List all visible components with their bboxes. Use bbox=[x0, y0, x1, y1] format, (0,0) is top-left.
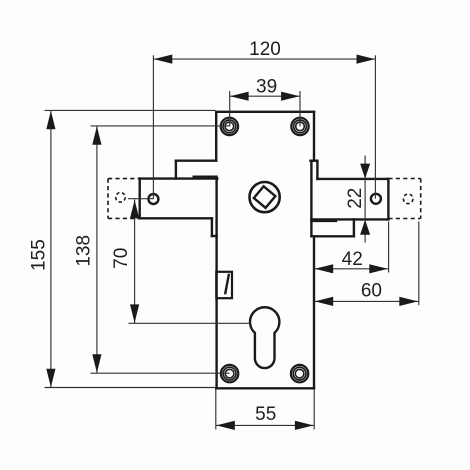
spindle follower circle bbox=[250, 182, 280, 212]
arrow 39 right bbox=[281, 92, 300, 101]
dim line 55 bbox=[216, 424, 314, 426]
arrow 60 left bbox=[315, 297, 334, 306]
dim line 39 bbox=[230, 95, 300, 97]
ext: 39 left bbox=[229, 91, 231, 126]
spindle square hole bbox=[254, 186, 276, 208]
dim line 138 bbox=[96, 126, 98, 373]
arrow 138 top bbox=[92, 126, 101, 145]
ext: 55 right bbox=[313, 390, 315, 430]
arrow 55 left bbox=[216, 421, 235, 430]
right lower tab bbox=[311, 219, 354, 236]
latch lever diagonal bbox=[225, 274, 229, 295]
arrow 42 right bbox=[369, 264, 388, 273]
body left edge upper bbox=[215, 112, 217, 161]
arrow 155 bottom bbox=[46, 369, 55, 388]
dim line 120 bbox=[153, 58, 375, 60]
screw bottom-right bbox=[291, 365, 308, 382]
svg-text:155: 155 bbox=[29, 239, 50, 271]
right weld plate bbox=[311, 179, 388, 220]
body left edge lower bbox=[215, 179, 217, 389]
arrow 138 bottom bbox=[92, 354, 101, 373]
svg-text:55: 55 bbox=[255, 404, 276, 425]
svg-text:42: 42 bbox=[342, 249, 363, 270]
euro cylinder keyhole bbox=[250, 307, 279, 368]
svg-text:120: 120 bbox=[249, 39, 281, 60]
svg-text:39: 39 bbox=[256, 76, 277, 97]
left lower step bbox=[212, 218, 217, 236]
body top edge bbox=[216, 111, 314, 113]
ext: 70 top (to left plate hole) bbox=[128, 198, 153, 200]
dim line 60 bbox=[314, 300, 418, 302]
screw top-left bbox=[221, 118, 238, 135]
arrow 42 left bbox=[315, 264, 334, 273]
lock body outline bbox=[216, 112, 314, 389]
svg-text:138: 138 bbox=[73, 235, 94, 267]
left plate hole bbox=[148, 194, 158, 204]
ext: 120 left (to left plate hole) bbox=[152, 55, 154, 199]
left dashed hole bbox=[116, 193, 126, 203]
ext: 155 bottom bbox=[45, 387, 216, 389]
right dashed hole bbox=[403, 194, 413, 204]
ext: 55 left bbox=[215, 390, 217, 430]
body right edge upper bbox=[313, 112, 315, 161]
right dashed gate post bbox=[388, 179, 420, 219]
screw top-right bbox=[291, 118, 308, 135]
body right edge lower bbox=[313, 236, 315, 388]
svg-text:22: 22 bbox=[345, 188, 366, 209]
svg-text:60: 60 bbox=[361, 281, 382, 302]
arrow 70 bottom bbox=[130, 304, 139, 323]
left mounting tab bbox=[176, 161, 217, 179]
thin extension lines bbox=[45, 55, 419, 429]
ext: 155 top bbox=[45, 109, 216, 111]
right edge bump bbox=[310, 161, 317, 179]
arrow 60 right bbox=[399, 297, 418, 306]
svg-text:70: 70 bbox=[111, 248, 132, 269]
dim line 70 bbox=[134, 200, 136, 324]
ext: 39 right bbox=[299, 91, 301, 126]
arrow 39 left bbox=[230, 92, 249, 101]
arrowheads bbox=[46, 55, 418, 431]
screw bottom-left bbox=[221, 365, 238, 382]
arrow 120 right bbox=[357, 55, 376, 64]
ext: 70 bottom (to keyhole) bbox=[129, 322, 251, 324]
dim line 22 bbox=[364, 156, 366, 243]
ext: 138 top bbox=[91, 125, 230, 127]
arrow 70 top bbox=[130, 200, 139, 219]
dim line 155 bbox=[50, 110, 52, 387]
arrow 55 right bbox=[295, 421, 314, 430]
arrow 155 top bbox=[46, 111, 55, 130]
ext: 120 right (to right plate hole) bbox=[374, 55, 376, 199]
body bottom edge bbox=[216, 387, 314, 389]
latch lever rectangle bbox=[216, 272, 232, 298]
dim line 42 bbox=[314, 268, 388, 270]
arrow 120 left bbox=[154, 55, 173, 64]
body right edge mid (behind right plate) bbox=[310, 161, 312, 237]
ext: 138 bottom bbox=[91, 372, 230, 374]
ext: 42 right bbox=[388, 222, 390, 273]
left dashed gate post bbox=[108, 179, 140, 219]
right plate hole bbox=[371, 194, 381, 204]
arrow 22 bottom (outside, points up) bbox=[360, 220, 370, 235]
left weld plate bbox=[140, 179, 218, 219]
dimension lines bbox=[51, 59, 418, 425]
ext: 60 right bbox=[418, 222, 420, 306]
arrow 22 top (outside, points down) bbox=[360, 164, 370, 179]
